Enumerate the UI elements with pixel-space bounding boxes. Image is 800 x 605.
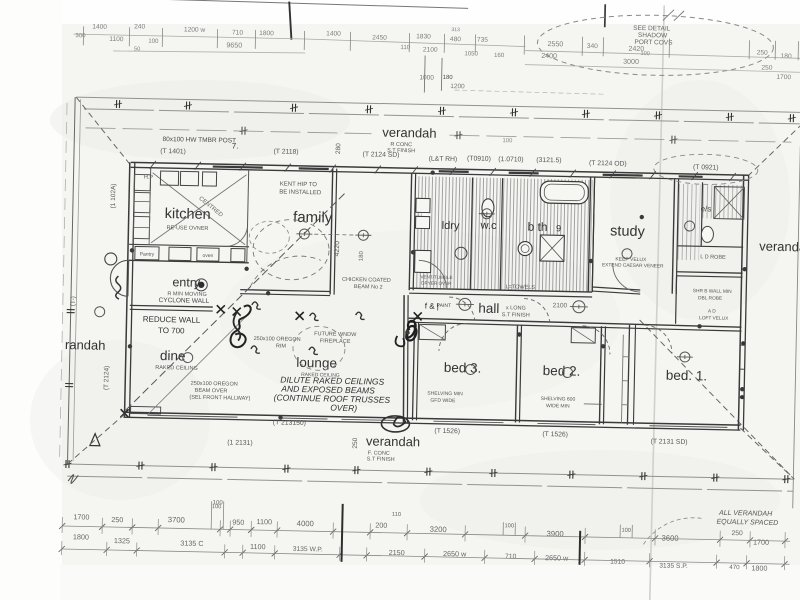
svg-text:3000: 3000 [623, 58, 639, 66]
svg-text:w.c: w.c [479, 220, 497, 232]
family dividing wall [330, 169, 333, 295]
bed door arcs [439, 323, 468, 352]
svg-text:1800: 1800 [73, 532, 89, 541]
building top wall [131, 162, 749, 175]
svg-text:S.T FINISH: S.T FINISH [387, 148, 415, 155]
svg-text:1800: 1800 [751, 563, 767, 572]
svg-text:RIM: RIM [276, 343, 287, 349]
ceiling light [299, 229, 309, 239]
kitchen bottom bench wall [129, 244, 249, 247]
power point [278, 415, 282, 419]
verandah post ticks bottom [65, 460, 67, 468]
svg-text:(T 1526): (T 1526) [542, 431, 568, 439]
svg-text:S.T FINISH: S.T FINISH [502, 312, 530, 319]
dark tick x285 [288, 2, 292, 40]
svg-text:(T 2118): (T 2118) [273, 148, 298, 156]
svg-text:3200: 3200 [430, 525, 447, 534]
svg-text:2100: 2100 [553, 302, 568, 309]
svg-text:3135 C: 3135 C [180, 538, 203, 547]
power point [640, 215, 644, 219]
power point [517, 332, 521, 336]
right page edge line [793, 146, 800, 508]
right wall window rungs [740, 344, 745, 346]
building left wall [124, 162, 129, 417]
svg-text:S.T FINISH: S.T FINISH [367, 456, 395, 463]
left boundary post ticks [67, 309, 75, 311]
bed1 nook walls [676, 276, 677, 324]
power point [589, 259, 593, 263]
svg-text:WIDE MIN: WIDE MIN [546, 403, 570, 410]
svg-text:250: 250 [352, 437, 359, 448]
svg-text:250: 250 [757, 49, 768, 56]
svg-text:300: 300 [75, 32, 86, 39]
ceiling light [482, 209, 492, 219]
svg-text:DBL ROBE: DBL ROBE [698, 295, 722, 302]
laundry left wall [409, 173, 411, 290]
svg-text:(T 2131 SD): (T 2131 SD) [651, 438, 688, 446]
svg-text:1400: 1400 [92, 23, 107, 30]
svg-text:250x100 OREGON: 250x100 OREGON [191, 381, 238, 388]
svg-text:(T 1526): (T 1526) [434, 428, 460, 436]
faint line y89 [454, 90, 604, 94]
ceiling light [573, 301, 585, 313]
raked beam diagonal [126, 186, 348, 414]
svg-text:250: 250 [111, 515, 123, 524]
front entry door half circle [110, 260, 129, 296]
svg-text:(L&T RH): (L&T RH) [429, 156, 458, 164]
hip line bottom-right (dashed) [739, 428, 795, 479]
ceiling light [459, 298, 471, 310]
power point [411, 250, 415, 254]
svg-text:RE-USE OVNER: RE-USE OVNER [166, 225, 208, 232]
svg-text:A D: A D [708, 308, 716, 314]
bath shower [540, 235, 565, 261]
svg-text:160: 160 [494, 52, 505, 59]
ceiling light [680, 352, 690, 362]
hip line top-left (dashed) [75, 97, 132, 165]
kitchen top cupboards [160, 171, 178, 185]
svg-text:3700: 3700 [168, 515, 185, 524]
ldry machine [455, 247, 467, 259]
svg-text:1400: 1400 [326, 30, 341, 37]
svg-text:SHR B WALL MIN: SHR B WALL MIN [693, 288, 732, 295]
svg-text:EQUALLY SPACED: EQUALLY SPACED [716, 519, 778, 527]
svg-text:180: 180 [359, 250, 365, 261]
power point [742, 267, 746, 271]
building right wall [738, 175, 743, 430]
svg-text:9650: 9650 [226, 41, 242, 49]
bottom dim line 1 [62, 526, 790, 541]
dark X marks [217, 305, 225, 313]
bath right wall [588, 177, 590, 292]
svg-text:1100: 1100 [257, 517, 273, 526]
window ticks on top wall [213, 167, 263, 168]
svg-text:x LONG: x LONG [506, 305, 526, 311]
triangle arrow below corner [90, 434, 100, 446]
svg-text:(T-): (T-) [70, 296, 77, 306]
revision cloud top right [537, 13, 774, 78]
svg-text:3135 S.P.: 3135 S.P. [659, 562, 688, 570]
robe rects [419, 324, 445, 340]
svg-text:180: 180 [443, 75, 454, 81]
verandah deck edge line (top) [86, 128, 372, 134]
ensuite/robe walls [701, 182, 702, 246]
svg-text:hall: hall [478, 301, 499, 316]
svg-text:SHELVING MIN: SHELVING MIN [427, 391, 463, 398]
svg-text:VENT/TUMBLE: VENT/TUMBLE [420, 274, 452, 280]
svg-text:100: 100 [621, 528, 631, 534]
building bottom wall [124, 412, 741, 425]
svg-text:LOFT VELUX: LOFT VELUX [699, 315, 729, 322]
lounge ceiling circle [293, 326, 346, 371]
svg-text:2550: 2550 [547, 40, 563, 48]
family small squiggles [252, 302, 261, 309]
svg-text:250: 250 [732, 530, 744, 537]
svg-text:3900: 3900 [546, 529, 563, 538]
svg-text:BE INSTALLED: BE INSTALLED [279, 189, 322, 196]
power point [740, 387, 744, 391]
ensuite wc pan [701, 226, 713, 242]
svg-text:3135 W.P.: 3135 W.P. [293, 546, 323, 554]
svg-text:9: 9 [556, 223, 561, 233]
svg-text:100: 100 [148, 38, 159, 45]
bed3/bed2 divider [515, 324, 517, 422]
svg-text:(T 2124 OD): (T 2124 OD) [589, 160, 627, 168]
wc/bath divider [500, 178, 502, 290]
svg-text:verandah: verandah [366, 433, 421, 449]
svg-text:480: 480 [450, 36, 461, 43]
svg-text:entry: entry [172, 275, 201, 290]
power point [430, 170, 434, 174]
bath tub [540, 181, 588, 204]
svg-text:1800: 1800 [259, 30, 274, 37]
svg-text:1100: 1100 [250, 542, 266, 551]
bath hall arc [524, 299, 550, 322]
lounge east wall [401, 295, 406, 423]
svg-text:KENT HIP TO: KENT HIP TO [280, 181, 318, 188]
svg-text:1700: 1700 [753, 537, 769, 546]
svg-text:710: 710 [505, 553, 517, 560]
svg-text:2450: 2450 [372, 34, 387, 41]
adjacent sheet edge line [121, 0, 468, 8]
entry cyclone wall [130, 305, 213, 307]
long hip through bed1 (dashed) [636, 320, 794, 476]
svg-text:2650 w: 2650 w [545, 553, 569, 563]
window marks bottom wall [148, 415, 238, 417]
svg-text:verandah: verandah [759, 239, 800, 255]
bottom boundary fascia line2 [67, 476, 793, 491]
svg-text:ALL VERANDAH: ALL VERANDAH [718, 510, 773, 518]
svg-text:1700: 1700 [73, 512, 89, 521]
svg-text:CHICKEN COATED: CHICKEN COATED [342, 277, 391, 284]
corner X mark bottom-left [120, 409, 128, 417]
power point [130, 248, 134, 252]
svg-text:250: 250 [761, 65, 772, 72]
entry dark dot [198, 282, 205, 289]
bed1 left robe wall [627, 325, 629, 425]
verandah post ticks top [115, 100, 117, 108]
svg-text:180: 180 [781, 53, 792, 60]
ceiling light [358, 230, 368, 240]
dark scribble blob near lounge NE [406, 321, 416, 341]
verandah roof gutter line (top) [76, 97, 800, 112]
family south wall segment [240, 290, 330, 292]
verandah step blob bottom [381, 416, 409, 433]
laundry/wc/bath hatched floor [412, 176, 592, 292]
ticks on top wall [150, 161, 156, 169]
svg-text:dine: dine [160, 348, 186, 364]
svg-text:randah: randah [65, 337, 106, 353]
svg-text:(T 2124): (T 2124) [103, 366, 111, 391]
svg-text:L=TOWELS: L=TOWELS [506, 284, 536, 291]
svg-text:1000: 1000 [419, 74, 434, 81]
bed3 left wall [412, 322, 414, 420]
left boundary line [67, 97, 75, 465]
svg-text:bed 2.: bed 2. [543, 363, 581, 379]
svg-text:4000: 4000 [297, 519, 314, 528]
study bottom wall [592, 287, 640, 290]
svg-text:2100: 2100 [423, 46, 438, 53]
svg-text:1200: 1200 [450, 83, 465, 90]
svg-text:200: 200 [375, 521, 387, 530]
svg-text:kitchen: kitchen [165, 206, 211, 223]
study left wall [592, 177, 594, 292]
svg-text:Pantry: Pantry [140, 252, 155, 258]
svg-text:verandah: verandah [382, 125, 437, 141]
bottom dim line 2 [62, 549, 790, 564]
svg-text:(T 1401): (T 1401) [160, 148, 186, 156]
svg-text:SHELVING 600: SHELVING 600 [541, 396, 576, 403]
kitchen right edge [247, 170, 249, 263]
svg-text:100: 100 [213, 500, 224, 506]
svg-text:FIREPLACE: FIREPLACE [320, 338, 351, 345]
svg-text:(3121.5): (3121.5) [536, 157, 561, 165]
wc pan [482, 199, 494, 217]
power point [244, 267, 248, 271]
svg-text:FUTURE WNDW: FUTURE WNDW [314, 331, 357, 338]
svg-text:PAINT: PAINT [437, 303, 451, 309]
power point [697, 324, 701, 328]
ensuite shower [714, 187, 745, 220]
svg-text:710: 710 [232, 29, 243, 36]
family ceiling dashed arcs [252, 219, 329, 281]
svg-text:110: 110 [392, 512, 401, 518]
svg-text:240: 240 [134, 23, 145, 30]
power point [266, 291, 270, 295]
laundry door arc [418, 260, 447, 289]
svg-text:1700: 1700 [776, 74, 791, 81]
scan fold line [650, 5, 665, 605]
svg-text:e/s: e/s [701, 204, 712, 213]
entry big scribble blob [230, 305, 250, 347]
dark tick x599 [604, 4, 606, 27]
svg-text:313: 313 [451, 27, 460, 33]
svg-text:lounge: lounge [296, 355, 337, 371]
kitchen door arcs [227, 226, 247, 246]
wc door arc [449, 297, 475, 320]
svg-text:KEEP VELUX: KEEP VELUX [615, 257, 647, 264]
cloud around T0921 [653, 153, 758, 185]
svg-text:study: study [610, 223, 646, 240]
kitchen ceiling X diagonals [151, 173, 246, 245]
svg-text:1200 w: 1200 w [184, 26, 206, 33]
svg-text:735: 735 [477, 37, 488, 44]
bottom boundary deck line [66, 464, 793, 479]
power point [405, 330, 409, 334]
bath basin [518, 241, 532, 255]
power point [128, 344, 132, 348]
svg-text:OVER): OVER) [330, 403, 357, 414]
kitchen bottom benches: pantry sink stove [135, 246, 159, 259]
svg-text:(1.0710): (1.0710) [498, 156, 523, 164]
laundry tub [416, 198, 430, 212]
top dimension lines [73, 34, 305, 39]
svg-text:TO 700: TO 700 [158, 326, 185, 336]
power point [601, 344, 605, 348]
bed1 robe inner line [621, 335, 623, 423]
svg-text:GFD WIDE: GFD WIDE [430, 398, 456, 405]
tick group 1000/1200 [423, 55, 426, 92]
svg-text:oven: oven [202, 253, 213, 259]
T squiggle left [115, 276, 120, 299]
svg-text:(T 213150): (T 213150) [273, 419, 306, 427]
svg-text:(SEL FRONT HALLWAY): (SEL FRONT HALLWAY) [189, 395, 250, 402]
svg-text:1510: 1510 [610, 558, 625, 565]
verandah roof fascia line 2 [84, 109, 800, 124]
kitchen left benches [134, 192, 150, 212]
svg-text:340: 340 [587, 43, 598, 50]
svg-text:(T0910): (T0910) [467, 155, 491, 162]
hip line bottom-left (dashed) [67, 413, 124, 465]
svg-text:BEAM OVER: BEAM OVER [195, 388, 228, 395]
svg-text:950: 950 [232, 518, 244, 527]
svg-text:280: 280 [335, 143, 342, 154]
svg-text:2400: 2400 [541, 52, 557, 60]
svg-text:BEAM No 2: BEAM No 2 [354, 284, 383, 291]
svg-text:bed. 1.: bed. 1. [666, 368, 708, 384]
svg-text:DRYER OVER: DRYER OVER [421, 280, 452, 286]
svg-text:(1 2131): (1 2131) [227, 439, 252, 447]
svg-text:CYCLONE WALL: CYCLONE WALL [159, 297, 210, 305]
svg-text:ldry: ldry [442, 220, 460, 232]
svg-text:(T 0921): (T 0921) [693, 164, 719, 172]
heavy tick x347 [342, 504, 343, 562]
study door arc [612, 263, 641, 292]
svg-text:bed 3.: bed 3. [444, 360, 482, 376]
svg-text:1100: 1100 [109, 36, 124, 43]
svg-text:H.P: H.P [144, 175, 154, 181]
svg-text:b th: b th [527, 220, 547, 234]
svg-text:100: 100 [504, 523, 514, 529]
svg-text:4220: 4220 [334, 241, 341, 257]
bed2 right wall [599, 326, 601, 424]
heavy tick x585 [578, 531, 581, 565]
svg-text:REDUCE WALL: REDUCE WALL [143, 315, 201, 325]
hall bottom wall [409, 318, 742, 327]
study right wall [672, 179, 674, 294]
svg-text:L D ROBE: L D ROBE [700, 254, 726, 261]
svg-text:470: 470 [729, 564, 740, 571]
hip line top-right (dashed) [748, 122, 800, 177]
svg-text:1830: 1830 [416, 33, 431, 40]
svg-text:1050: 1050 [464, 50, 478, 57]
laundry/wc divider [470, 177, 472, 289]
squiggle bottom left [68, 475, 78, 484]
svg-text:1325: 1325 [114, 536, 130, 545]
white patch on hatch [422, 209, 429, 226]
svg-text:100: 100 [502, 138, 513, 144]
svg-text:(1 102A): (1 102A) [110, 183, 118, 208]
ensuite hatched floor [677, 184, 701, 260]
wet block bottom wall / hall top wall [409, 288, 592, 292]
